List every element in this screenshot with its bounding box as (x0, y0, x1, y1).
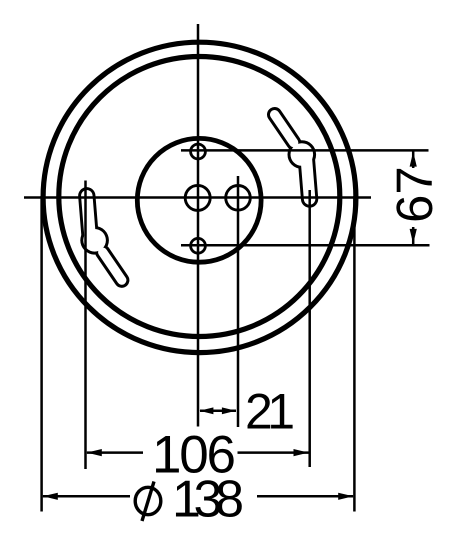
dimension 106 line + arrows (87, 449, 309, 456)
dimension 21 double arrow (199, 407, 236, 414)
inner ring circle (59, 57, 340, 337)
outer circle (canopy rim) (43, 42, 356, 352)
right hole extension line (237, 176, 240, 427)
bottom hole crosshair line (181, 244, 430, 247)
left slot screw-center extension line (84, 181, 87, 470)
center circle (137, 138, 261, 262)
keyhole slot left (180deg rotated copy) (80, 196, 122, 280)
right slot screw-center extension line (308, 190, 311, 467)
svg-text:138: 138 (172, 471, 244, 529)
top hole (191, 144, 206, 159)
phi138 right extension line (353, 196, 356, 512)
right hole (226, 186, 251, 211)
keyhole slot right (275, 115, 317, 199)
center hole (185, 185, 210, 210)
svg-text:67: 67 (386, 166, 443, 223)
phi symbol of 138 dimension (135, 482, 161, 522)
top hole crosshair line (181, 149, 429, 152)
svg-text:21: 21 (245, 384, 295, 440)
vertical centerline (197, 24, 200, 427)
phi138 left extension line (40, 196, 43, 512)
bottom hole (191, 238, 206, 253)
dimension 67 line + arrows (410, 150, 417, 245)
horizontal centerline (24, 196, 371, 199)
dimension phi138 line + arrows (43, 493, 353, 500)
